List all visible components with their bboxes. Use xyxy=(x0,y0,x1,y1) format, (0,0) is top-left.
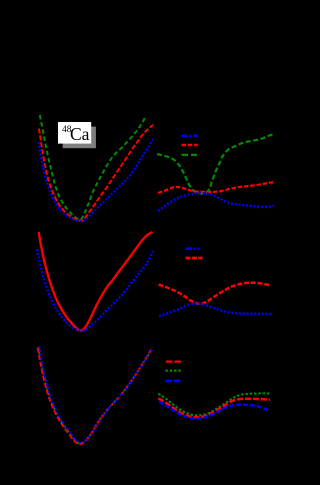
top-right legend: blue dash-dot sample xyxy=(182,135,198,137)
bottom-right panel: green dotted curve xyxy=(158,393,270,415)
bottom-right legend: blue dashed sample xyxy=(165,380,181,383)
48Ca label box xyxy=(58,122,91,144)
top-left panel: red dashed PES curve xyxy=(39,125,153,221)
bottom-left panel: red dashed PES curve xyxy=(38,348,152,444)
svg-text:Ca: Ca xyxy=(70,124,90,144)
48Ca label shadow xyxy=(63,127,96,149)
bottom-right panel: blue dashed curve xyxy=(159,402,270,419)
middle-left panel: red solid PES curve xyxy=(39,232,153,331)
bottom-left panel: blue dotted PES curve xyxy=(39,346,153,442)
top-right panel: green dashed curve xyxy=(157,135,273,194)
top-right panel: blue dotted curve xyxy=(158,193,274,211)
bottom-right panel: red dashed curve xyxy=(158,399,270,418)
top-left panel: blue dotted PES curve xyxy=(39,139,154,222)
top-left panel: green dashed PES curve xyxy=(40,115,146,220)
middle-left panel: blue dotted PES curve xyxy=(37,249,153,331)
middle-right legend: red dashed sample xyxy=(185,257,202,260)
middle-right panel: red dashed curve xyxy=(159,283,271,304)
bottom-right legend: red dashed sample xyxy=(166,360,182,362)
top-right legend: green dashed sample xyxy=(182,154,198,156)
top-right legend: red dashed sample xyxy=(182,144,198,147)
bottom-right legend: green dotted sample xyxy=(165,369,181,371)
bottom-left panel: green dashed PES curve xyxy=(38,347,152,443)
middle-right legend: blue dash-dot sample xyxy=(185,247,201,250)
middle-right panel: blue dotted curve xyxy=(159,304,272,316)
top-right panel: red dashed curve xyxy=(158,182,274,193)
